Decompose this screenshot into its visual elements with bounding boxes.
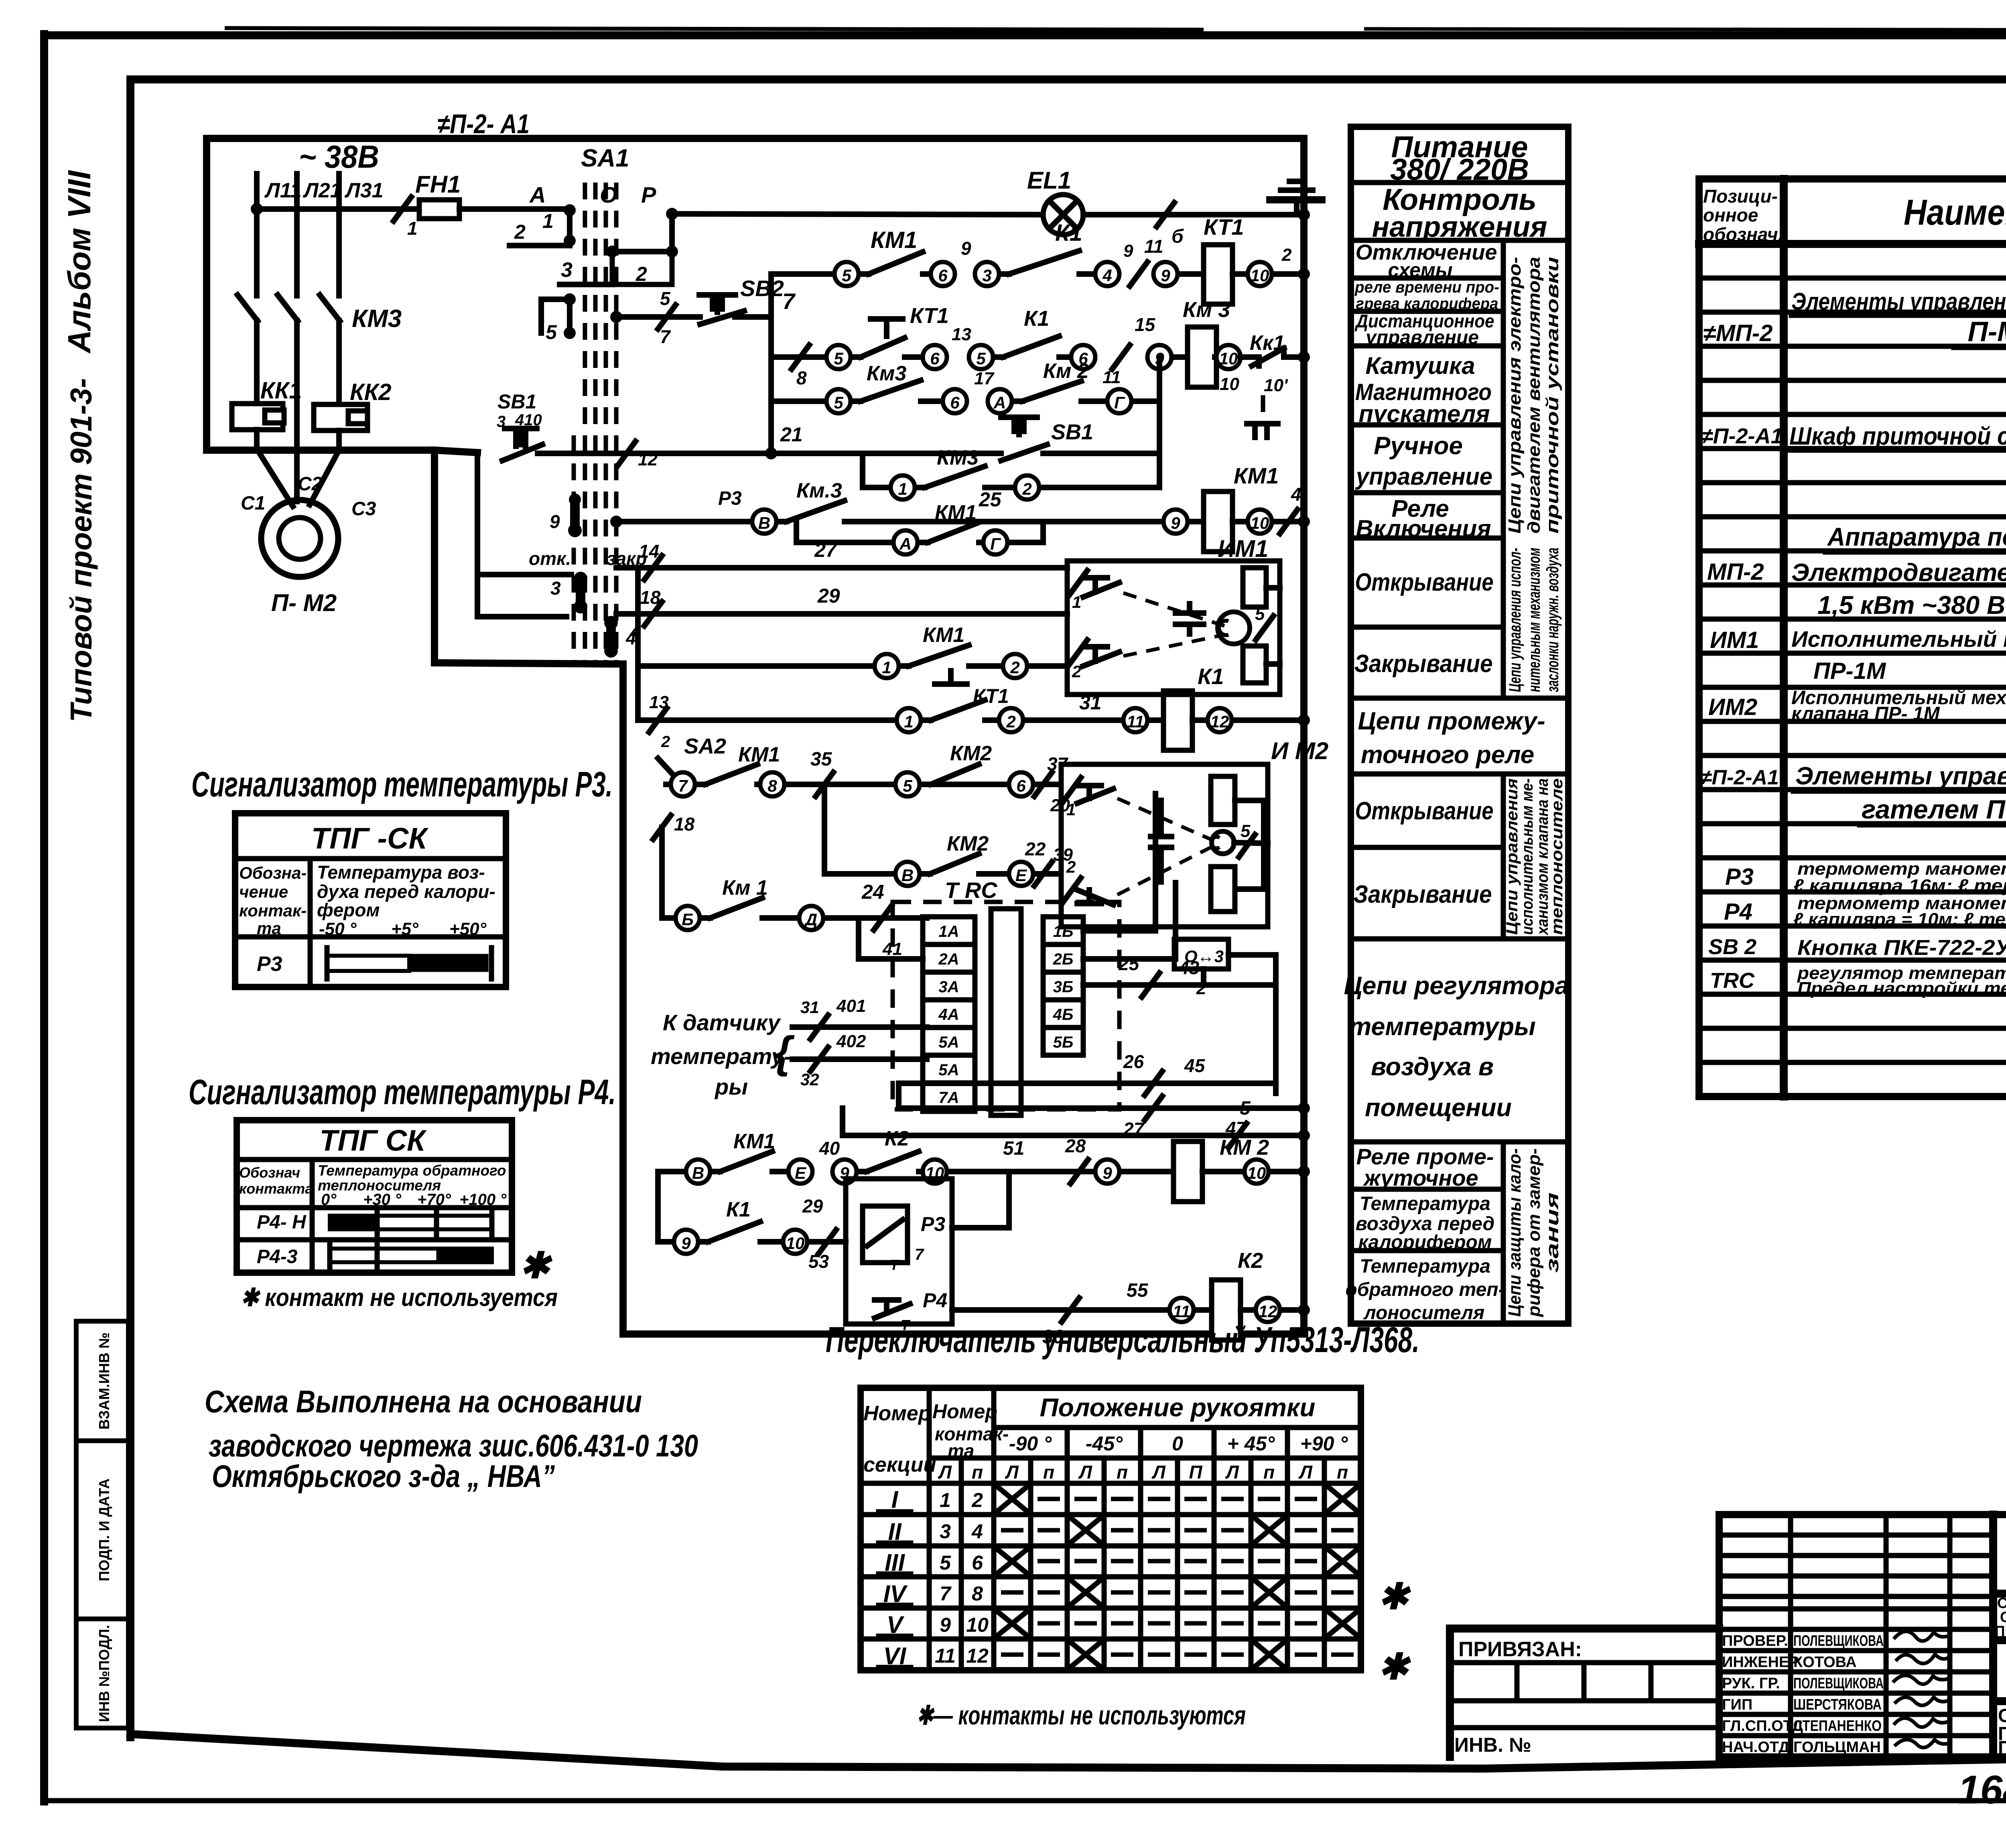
svg-text:I: I <box>891 1486 899 1513</box>
svg-text:10: 10 <box>1220 374 1239 394</box>
svg-text:МП-2: МП-2 <box>1707 559 1764 585</box>
svg-text:15: 15 <box>1135 314 1156 335</box>
svg-text:ПОДП. И ДАТА: ПОДП. И ДАТА <box>96 1478 112 1581</box>
svg-text:Открывание: Открывание <box>1355 797 1494 825</box>
svg-text:Обозна-: Обозна- <box>239 863 307 882</box>
svg-text:1: 1 <box>407 218 418 239</box>
svg-text:К2: К2 <box>1238 1249 1263 1273</box>
svg-text:ПРИВЯЗАН:: ПРИВЯЗАН: <box>1458 1638 1582 1661</box>
svg-text:Номер: Номер <box>932 1400 997 1423</box>
svg-text:10: 10 <box>1251 266 1269 285</box>
svg-text:9: 9 <box>1102 1164 1112 1182</box>
svg-text:приточной установки: приточной установки <box>1543 257 1562 534</box>
svg-text:П-М2: П-М2 <box>1968 316 2006 347</box>
svg-text:КМ1: КМ1 <box>935 501 977 524</box>
svg-text:духа перед калори-: духа перед калори- <box>317 881 495 902</box>
svg-text:11: 11 <box>935 1645 956 1667</box>
svg-text:-50 °: -50 ° <box>319 919 357 939</box>
svg-text:Р3: Р3 <box>921 1213 945 1235</box>
svg-text:7А: 7А <box>938 1089 959 1107</box>
svg-text:ГОЛЬЦМАН: ГОЛЬЦМАН <box>1793 1739 1881 1756</box>
svg-text:55: 55 <box>1127 1280 1149 1301</box>
svg-text:SА1: SА1 <box>581 144 629 172</box>
svg-text:КМ2: КМ2 <box>950 742 992 765</box>
svg-text:КМ3: КМ3 <box>937 446 979 469</box>
svg-text:5: 5 <box>834 393 843 412</box>
svg-text:2: 2 <box>1022 479 1031 498</box>
svg-text:К2: К2 <box>885 1127 909 1150</box>
svg-text:Т RС: Т RС <box>945 877 998 903</box>
svg-text:Альбом VIII: Альбом VIII <box>61 170 97 354</box>
svg-text:Ручное: Ручное <box>1374 432 1463 460</box>
svg-text:3Б: 3Б <box>1053 978 1074 996</box>
svg-text:Е: Е <box>795 1164 807 1182</box>
svg-text:онное: онное <box>1703 205 1758 225</box>
svg-text:схемы: схемы <box>1388 259 1452 281</box>
svg-text:чение: чение <box>239 882 288 901</box>
svg-text:3: 3 <box>561 258 573 282</box>
svg-text:ИМ1: ИМ1 <box>1710 627 1759 653</box>
svg-text:+5°: +5° <box>391 919 418 939</box>
svg-text:5: 5 <box>903 776 912 795</box>
svg-text:6: 6 <box>950 393 960 412</box>
svg-text:Г: Г <box>990 534 1001 553</box>
svg-text:Р3: Р3 <box>257 952 282 976</box>
svg-text:12: 12 <box>1259 1302 1277 1321</box>
svg-text:заводского чертежа зшс.606.4: заводского чертежа зшс.606.431-0 130 <box>209 1428 698 1463</box>
svg-text:калорифером: калорифером <box>1358 1232 1492 1253</box>
svg-text:✱— контакты не используются: ✱— контакты не используются <box>917 1700 1246 1730</box>
svg-text:2: 2 <box>1281 245 1292 265</box>
svg-text:45: 45 <box>1184 1055 1206 1076</box>
svg-text:13: 13 <box>952 325 971 344</box>
svg-text:Наименование: Наименование <box>1904 193 2006 233</box>
svg-text:Км 3: Км 3 <box>1183 298 1230 322</box>
svg-text:Элементы управления электродви: Элементы управления электродвигателем <box>1791 288 2006 315</box>
svg-text:Октябрьского з-да „ НВА”: Октябрьского з-да „ НВА” <box>212 1458 555 1494</box>
svg-text:КК2: КК2 <box>350 379 392 405</box>
svg-text:22: 22 <box>1025 839 1046 859</box>
svg-text:помещении: помещении <box>1365 1094 1512 1122</box>
svg-text:FН1: FН1 <box>415 171 461 198</box>
svg-text:1: 1 <box>542 210 554 232</box>
svg-text:7: 7 <box>940 1582 952 1605</box>
svg-text:Г: Г <box>1114 393 1125 412</box>
svg-text:управление: управление <box>1355 463 1492 490</box>
svg-text:реле времени про-: реле времени про- <box>1354 278 1499 296</box>
svg-text:ℓ капиляра = 10м; ℓ термобалло: ℓ капиляра = 10м; ℓ термобаллона = 250 м… <box>1793 910 2006 929</box>
svg-text:11: 11 <box>1144 236 1163 257</box>
svg-text:Сигнализатор температуры Р3.: Сигнализатор температуры Р3. <box>191 764 613 804</box>
svg-text:Температура воз-: Температура воз- <box>317 862 485 883</box>
svg-text:Включения: Включения <box>1356 515 1491 542</box>
svg-text:4: 4 <box>1102 266 1112 285</box>
svg-text:9: 9 <box>681 1234 691 1253</box>
svg-text:1Б: 1Б <box>1053 923 1074 940</box>
svg-text:Л21: Л21 <box>303 179 342 202</box>
svg-text:КМ1: КМ1 <box>923 623 964 647</box>
svg-text:5: 5 <box>546 321 557 343</box>
svg-text:Обознач: Обознач <box>239 1164 300 1181</box>
svg-text:КОТОВА: КОТОВА <box>1793 1654 1857 1671</box>
svg-text:Р4: Р4 <box>1724 899 1752 925</box>
svg-text:фером: фером <box>317 900 380 920</box>
svg-text:температу-: температу- <box>651 1044 792 1069</box>
svg-text:29: 29 <box>802 1196 823 1216</box>
svg-text:Д: Д <box>804 910 817 929</box>
svg-text:Р4: Р4 <box>923 1289 947 1312</box>
svg-text:6: 6 <box>1016 776 1026 795</box>
svg-text:П: П <box>1189 1462 1202 1482</box>
svg-text:5А: 5А <box>938 1061 959 1079</box>
svg-text:ТПГ СК: ТПГ СК <box>319 1124 427 1157</box>
svg-text:8: 8 <box>796 368 807 388</box>
svg-text:5: 5 <box>1240 1098 1251 1119</box>
svg-text:В: В <box>901 866 914 885</box>
svg-text:Км 2: Км 2 <box>1043 359 1089 383</box>
svg-text:~ 38В: ~ 38В <box>299 139 379 175</box>
svg-text:нительным механизмом: нительным механизмом <box>1525 548 1543 692</box>
svg-text:+70°: +70° <box>417 1191 451 1208</box>
svg-text:Аппаратура по месту: Аппаратура по месту <box>1827 522 2006 551</box>
svg-text:Температура: Температура <box>1360 1256 1490 1277</box>
svg-text:Переключатель универсальный Уп: Переключатель универсальный Уп5313-Л368. <box>826 1320 1419 1360</box>
svg-text:С1: С1 <box>241 493 265 514</box>
svg-text:31: 31 <box>800 998 819 1017</box>
svg-text:1: 1 <box>904 712 913 731</box>
svg-text:2: 2 <box>636 263 647 285</box>
svg-text:воздуха в: воздуха в <box>1371 1053 1494 1081</box>
svg-text:2: 2 <box>1006 712 1015 731</box>
svg-text:ШЕРСТЯКОВА: ШЕРСТЯКОВА <box>1793 1696 1882 1713</box>
svg-text:Р4-3: Р4-3 <box>257 1246 298 1267</box>
svg-text:И М2: И М2 <box>1271 737 1328 764</box>
svg-text:Положение рукоятки: Положение рукоятки <box>1040 1393 1316 1422</box>
svg-text:0°: 0° <box>321 1191 337 1208</box>
svg-text:43: 43 <box>1178 957 1200 978</box>
svg-text:П- М2: П- М2 <box>271 589 337 616</box>
svg-text:заслонки наружн. воздуха: заслонки наружн. воздуха <box>1543 548 1562 692</box>
svg-text:2А: 2А <box>938 950 959 968</box>
svg-text:ИНВ. №: ИНВ. № <box>1454 1734 1531 1756</box>
svg-text:3: 3 <box>550 578 561 599</box>
svg-text:Цепи управления испол-: Цепи управления испол- <box>1505 548 1524 692</box>
svg-text:В: В <box>692 1164 704 1182</box>
svg-text:{: { <box>774 1028 795 1077</box>
svg-text:НАЧ.ОТД: НАЧ.ОТД <box>1722 1739 1789 1756</box>
svg-text:СТЕПАНЕНКО: СТЕПАНЕНКО <box>1793 1718 1882 1734</box>
svg-text:ГИП: ГИП <box>1722 1696 1752 1713</box>
svg-text:13: 13 <box>649 692 669 712</box>
svg-text:КТ1: КТ1 <box>910 304 949 328</box>
svg-text:+100 °: +100 ° <box>459 1191 507 1208</box>
svg-text:КТ1: КТ1 <box>1204 214 1244 240</box>
svg-text:КМ1: КМ1 <box>738 743 780 766</box>
svg-text:5: 5 <box>940 1552 951 1574</box>
svg-text:5А: 5А <box>938 1034 959 1051</box>
svg-text:41: 41 <box>882 939 902 959</box>
svg-text:26: 26 <box>1123 1051 1144 1072</box>
svg-text:ПОЛЕВЩИКОВА: ПОЛЕВЩИКОВА <box>1793 1633 1884 1649</box>
svg-text:10: 10 <box>786 1234 805 1253</box>
svg-text:6: 6 <box>930 349 940 368</box>
svg-text:КМ 2: КМ 2 <box>1220 1135 1269 1160</box>
svg-text:теплоносителе: теплоносителе <box>1548 778 1566 935</box>
svg-text:КМ1: КМ1 <box>1234 463 1279 488</box>
svg-text:п: п <box>1043 1462 1054 1482</box>
svg-text:клапана ПР- 1М: клапана ПР- 1М <box>1791 703 1940 725</box>
svg-text:ЕL1: ЕL1 <box>1027 167 1071 194</box>
svg-text:С3: С3 <box>351 498 376 520</box>
svg-text:контакта: контакта <box>239 1180 313 1197</box>
svg-text:п: п <box>972 1462 983 1482</box>
svg-text:К1: К1 <box>1055 220 1082 246</box>
svg-text:11: 11 <box>1127 712 1144 731</box>
svg-text:35: 35 <box>810 749 832 770</box>
svg-text:Л: Л <box>938 1462 952 1482</box>
svg-text:А: А <box>529 182 546 207</box>
svg-text:21: 21 <box>780 423 803 446</box>
svg-text:Номер: Номер <box>863 1402 931 1425</box>
svg-text:К датчику: К датчику <box>663 1010 781 1035</box>
svg-text:Л: Л <box>1151 1462 1166 1482</box>
svg-text:Цепи промежу-: Цепи промежу- <box>1358 707 1545 735</box>
svg-text:27: 27 <box>814 539 838 561</box>
svg-text:1: 1 <box>898 479 907 498</box>
svg-text:+90 °: +90 ° <box>1300 1432 1348 1455</box>
svg-text:9: 9 <box>1171 514 1180 532</box>
svg-text:✱: ✱ <box>520 1246 553 1286</box>
svg-text:7: 7 <box>678 776 688 795</box>
svg-text:✱: ✱ <box>1378 1577 1411 1617</box>
svg-text:39: 39 <box>1053 845 1073 865</box>
svg-text:Шкаф приточной системы ШР1116: Шкаф приточной системы ШР1116 - 69 <box>1789 422 2006 450</box>
svg-text:24: 24 <box>861 881 884 903</box>
svg-text:Км 1: Км 1 <box>722 876 768 900</box>
svg-text:0: 0 <box>1172 1432 1183 1455</box>
svg-text:рифера от замер-: рифера от замер- <box>1524 1148 1544 1317</box>
svg-text:25: 25 <box>979 488 1002 511</box>
svg-text:Температура: Температура <box>1360 1193 1490 1214</box>
svg-text:6: 6 <box>972 1552 983 1574</box>
svg-text:КМ2: КМ2 <box>947 832 989 855</box>
svg-text:ГЛ.СП.ОТД: ГЛ.СП.ОТД <box>1722 1718 1803 1734</box>
svg-text:Км.3: Км.3 <box>796 479 842 502</box>
svg-text:Л: Л <box>1298 1462 1313 1482</box>
svg-text:ПОЛЕВЩИКОВА: ПОЛЕВЩИКОВА <box>1793 1675 1884 1692</box>
svg-text:ТПГ -СК: ТПГ -СК <box>311 822 428 855</box>
svg-text:SВ1: SВ1 <box>497 390 536 413</box>
svg-text:16856 - 01: 16856 - 01 <box>1958 1767 2006 1812</box>
svg-text:380/ 220В: 380/ 220В <box>1390 152 1529 186</box>
svg-text:11: 11 <box>1173 1302 1190 1321</box>
svg-text:Кнопка ПКЕ-722-2У3,ТУ16, 526.: Кнопка ПКЕ-722-2У3,ТУ16, 526. 216 - 71 <box>1797 936 2006 960</box>
svg-text:Открывание: Открывание <box>1355 569 1494 596</box>
svg-text:SВ2: SВ2 <box>740 276 784 301</box>
svg-text:управление: управление <box>1365 327 1479 348</box>
svg-text:2: 2 <box>1010 658 1019 677</box>
svg-text:та: та <box>948 1440 974 1461</box>
svg-text:3: 3 <box>982 266 991 285</box>
svg-text:1,5 кВт ~380 В: 1,5 кВт ~380 В <box>1817 591 2005 619</box>
svg-text:+30 °: +30 ° <box>363 1191 402 1208</box>
svg-text:секции: секции <box>863 1453 936 1476</box>
svg-text:температуры: температуры <box>1349 1013 1536 1041</box>
svg-text:7: 7 <box>782 288 796 314</box>
svg-text:ВЗАМ.ИНВ №: ВЗАМ.ИНВ № <box>96 1332 112 1430</box>
svg-text:✱ контакт не используется: ✱ контакт не используется <box>241 1284 558 1312</box>
svg-text:А: А <box>993 393 1006 412</box>
svg-text:4А: 4А <box>938 1006 959 1024</box>
svg-text:РУК. ГР.: РУК. ГР. <box>1722 1675 1780 1692</box>
svg-text:Закрывание: Закрывание <box>1354 650 1493 678</box>
svg-text:9: 9 <box>1161 266 1170 285</box>
svg-text:18: 18 <box>674 814 695 835</box>
svg-text:ТRС: ТRС <box>1710 969 1755 993</box>
svg-text:10': 10' <box>1264 376 1288 395</box>
svg-text:6: 6 <box>938 266 948 285</box>
svg-text:2: 2 <box>514 221 526 243</box>
svg-text:11: 11 <box>1102 368 1121 387</box>
svg-text:Л31: Л31 <box>344 179 384 202</box>
svg-text:9: 9 <box>550 511 560 532</box>
svg-text:9: 9 <box>961 238 971 259</box>
svg-text:4Б: 4Б <box>1053 1006 1074 1024</box>
svg-text:12: 12 <box>1210 712 1229 731</box>
svg-text:Л: Л <box>1078 1462 1092 1482</box>
svg-text:ПР-1М: ПР-1М <box>1813 658 1886 684</box>
svg-text:51: 51 <box>1003 1138 1024 1159</box>
svg-text:1: 1 <box>940 1489 951 1511</box>
svg-text:32: 32 <box>800 1070 819 1089</box>
svg-text:≠П-2- А1: ≠П-2- А1 <box>437 109 530 139</box>
svg-text:отк.: отк. <box>529 548 571 569</box>
svg-text:гателем П-М2.: гателем П-М2. <box>1862 794 2006 824</box>
svg-text:п: п <box>1263 1462 1275 1482</box>
svg-text:В: В <box>758 514 770 532</box>
svg-text:Р3: Р3 <box>718 488 742 509</box>
svg-text:≠П-2-А1: ≠П-2-А1 <box>1701 424 1783 448</box>
svg-text:напряжения: напряжения <box>1372 211 1547 243</box>
svg-text:КМ3: КМ3 <box>352 305 402 333</box>
svg-text:двигателем вентилятора: двигателем вентилятора <box>1524 257 1544 534</box>
svg-text:Закрывание: Закрывание <box>1354 881 1492 908</box>
svg-text:Цепи регулятора: Цепи регулятора <box>1344 972 1569 1000</box>
svg-text:12: 12 <box>966 1645 989 1667</box>
svg-text:К1: К1 <box>1198 664 1224 689</box>
svg-text:Т: Т <box>890 1257 900 1273</box>
svg-text:401: 401 <box>836 996 866 1016</box>
svg-text:5Б: 5Б <box>1053 1034 1074 1051</box>
svg-text:ИНВ №ПОДЛ.: ИНВ №ПОДЛ. <box>96 1625 112 1722</box>
svg-text:40: 40 <box>819 1138 840 1159</box>
svg-text:+50°: +50° <box>449 919 487 939</box>
svg-text:5: 5 <box>976 349 986 368</box>
svg-text:Б: Б <box>682 910 694 929</box>
svg-text:С2: С2 <box>298 473 323 495</box>
svg-text:Р4- Н: Р4- Н <box>257 1212 307 1233</box>
svg-text:КМ1: КМ1 <box>871 227 917 253</box>
svg-text:7: 7 <box>915 1246 924 1263</box>
svg-text:п: п <box>1117 1462 1128 1482</box>
svg-text:б: б <box>1172 226 1184 247</box>
svg-text:А: А <box>899 534 912 553</box>
svg-text:Сигнализатор температуры Р4.: Сигнализатор температуры Р4. <box>189 1072 616 1112</box>
svg-text:Цепи защиты кало-: Цепи защиты кало- <box>1505 1148 1525 1317</box>
svg-text:5: 5 <box>660 288 671 309</box>
svg-text:402: 402 <box>836 1032 866 1051</box>
svg-text:ИНЖЕНЕР: ИНЖЕНЕР <box>1722 1654 1799 1671</box>
svg-text:Цепи управления электро-: Цепи управления электро- <box>1505 257 1525 534</box>
svg-text:ры: ры <box>714 1074 748 1099</box>
svg-text:9: 9 <box>940 1614 951 1636</box>
svg-text:К1: К1 <box>726 1198 751 1221</box>
svg-text:точного реле: точного реле <box>1361 741 1535 769</box>
svg-text:18: 18 <box>640 587 661 608</box>
svg-text:14: 14 <box>639 541 659 562</box>
svg-text:9: 9 <box>1123 241 1133 261</box>
svg-text:зания: зания <box>1543 1192 1562 1273</box>
svg-text:Предел настройки температуры -: Предел настройки температуры -10°÷ 15°С <box>1797 979 2006 998</box>
svg-text:2: 2 <box>661 733 670 751</box>
svg-text:Р: Р <box>641 182 656 207</box>
svg-text:Типовой проект 901-3-: Типовой проект 901-3- <box>64 378 98 722</box>
svg-text:53: 53 <box>808 1251 829 1272</box>
svg-text:SВ 2: SВ 2 <box>1708 935 1756 959</box>
svg-text:ИМ1: ИМ1 <box>1218 535 1269 562</box>
svg-text:2: 2 <box>971 1489 983 1511</box>
svg-text:Электродвигатель АОЛ2-22-4: Электродвигатель АОЛ2-22-4 <box>1791 559 2006 587</box>
svg-text:Позици-: Позици- <box>1703 186 1778 207</box>
svg-text:10: 10 <box>1247 1164 1266 1182</box>
svg-text:10: 10 <box>966 1614 989 1636</box>
svg-text:Е: Е <box>1015 866 1027 885</box>
svg-text:3А: 3А <box>938 978 959 996</box>
svg-text:8: 8 <box>767 776 777 795</box>
svg-text:28: 28 <box>1065 1135 1086 1156</box>
svg-text:1А: 1А <box>938 923 959 940</box>
svg-text:ИМ2: ИМ2 <box>1708 694 1757 720</box>
svg-text:8: 8 <box>972 1582 983 1605</box>
svg-text:≠П-2-А1: ≠П-2-А1 <box>1700 766 1779 789</box>
svg-text:≠МП-2: ≠МП-2 <box>1703 320 1773 346</box>
svg-text:10: 10 <box>1251 514 1269 532</box>
svg-text:-90 °: -90 ° <box>1009 1432 1052 1455</box>
svg-text:грева калорифера: грева калорифера <box>1356 295 1498 313</box>
svg-text:3: 3 <box>940 1520 951 1543</box>
svg-text:4: 4 <box>1291 484 1301 505</box>
svg-text:ПРОВЕР.: ПРОВЕР. <box>1722 1633 1788 1649</box>
svg-text:Исполнительный механизм заслон: Исполнительный механизм заслонки <box>1791 626 2006 652</box>
svg-text:1: 1 <box>882 658 891 677</box>
svg-text:12: 12 <box>638 450 658 469</box>
svg-text:та: та <box>257 919 281 938</box>
svg-text:Схема Выполнена на основани: Схема Выполнена на основании <box>205 1384 642 1419</box>
svg-text:К1: К1 <box>1024 307 1049 331</box>
svg-text:ПРИТОЧНОЙ СИСТЕМЫ П-2: ПРИТОЧНОЙ СИСТЕМЫ П-2 <box>1998 1737 2006 1758</box>
svg-text:пускателя: пускателя <box>1358 400 1490 427</box>
svg-text:Км3: Км3 <box>867 362 906 385</box>
svg-text:SВ1: SВ1 <box>1051 420 1093 444</box>
svg-text:7: 7 <box>660 326 671 347</box>
svg-text:Катушка: Катушка <box>1365 352 1475 379</box>
svg-text:29: 29 <box>817 585 840 607</box>
svg-text:+ 45°: + 45° <box>1227 1432 1275 1455</box>
svg-text:✱: ✱ <box>1378 1647 1411 1687</box>
svg-text:5: 5 <box>842 266 851 285</box>
svg-text:4: 4 <box>971 1520 983 1543</box>
svg-text:обознач.: обознач. <box>1703 224 1783 245</box>
